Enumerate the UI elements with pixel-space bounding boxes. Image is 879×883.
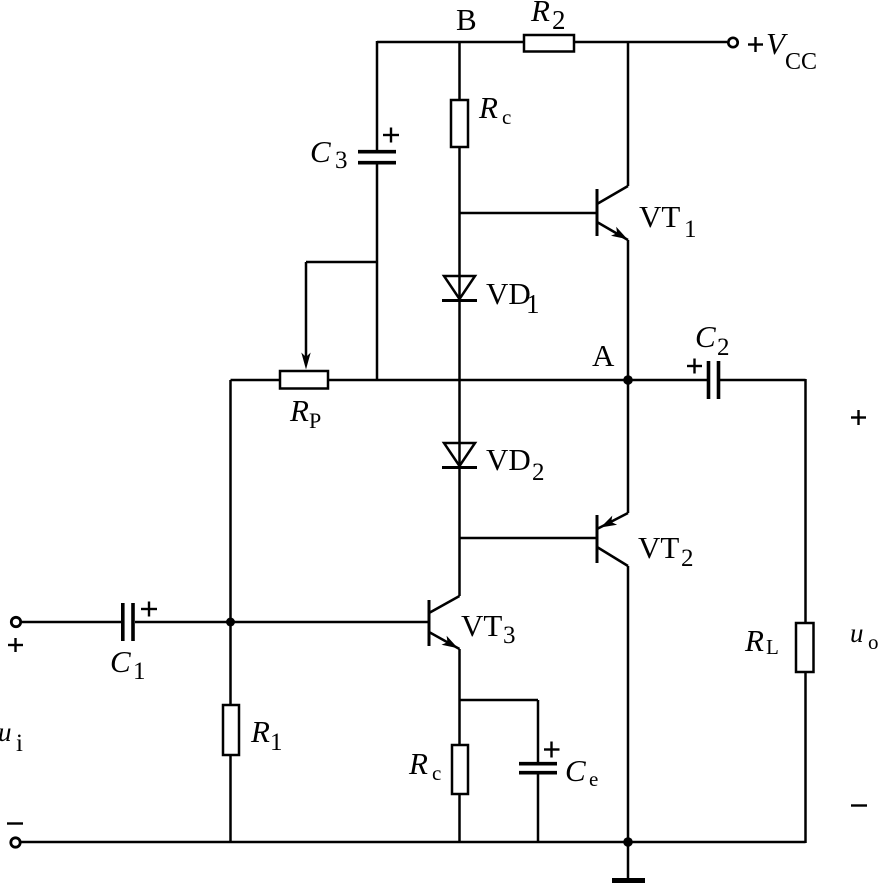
svg-text:R: R [744,623,764,658]
svg-text:u: u [850,618,864,648]
svg-text:A: A [592,338,615,373]
svg-text:2: 2 [552,5,566,35]
svg-text:1: 1 [684,216,697,243]
svg-text:R: R [530,0,550,28]
svg-text:u: u [0,717,12,747]
svg-text:R: R [478,90,498,125]
svg-text:C: C [695,319,716,354]
svg-text:VT: VT [638,530,679,565]
svg-text:e: e [589,767,598,791]
svg-text:R: R [250,714,270,749]
svg-text:o: o [868,630,879,654]
svg-text:VD: VD [486,442,531,477]
svg-text:C: C [310,134,331,169]
svg-text:3: 3 [335,147,348,174]
svg-text:2: 2 [532,459,545,486]
svg-text:B: B [456,2,477,37]
svg-text:1: 1 [133,658,146,685]
svg-text:i: i [16,730,23,757]
svg-text:VT: VT [461,608,502,643]
svg-text:L: L [766,635,779,659]
svg-text:R: R [408,746,428,781]
svg-text:C: C [110,644,131,679]
svg-text:c: c [432,761,441,785]
svg-text:R: R [289,393,309,428]
svg-text:2: 2 [717,334,730,361]
svg-text:C: C [565,753,586,788]
svg-text:1: 1 [526,289,540,319]
svg-text:3: 3 [503,622,516,649]
svg-text:1: 1 [270,729,283,756]
svg-text:P: P [309,408,321,433]
svg-text:VT: VT [639,199,680,234]
svg-text:2: 2 [681,545,694,572]
svg-text:c: c [502,105,511,129]
svg-text:VD: VD [486,276,531,311]
svg-text:CC: CC [785,49,817,75]
